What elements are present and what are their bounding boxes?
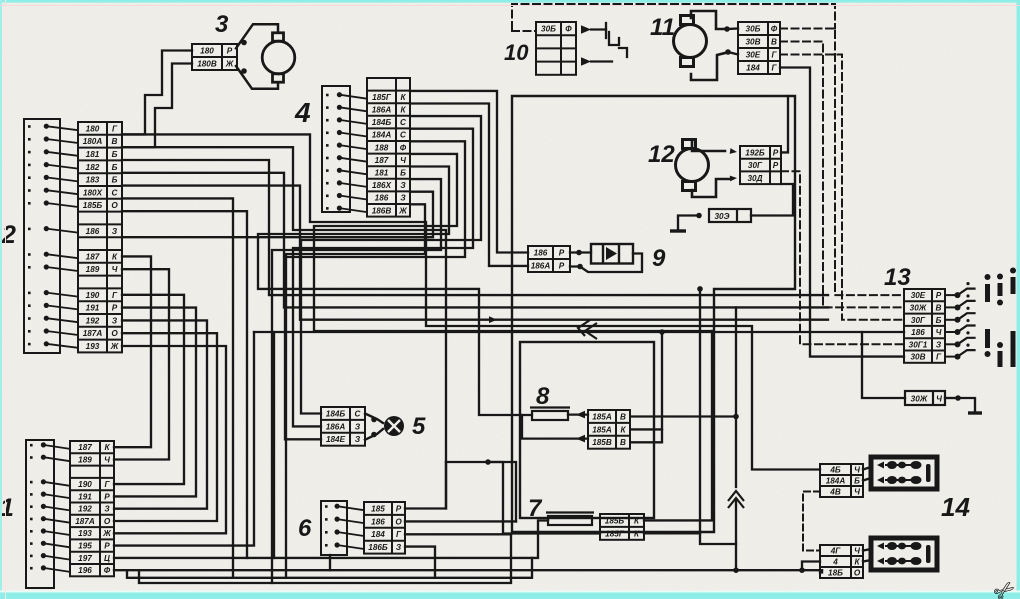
fuse 8 arrow upper — [576, 411, 585, 419]
wire passthrough 7 comp2 to comp1 — [114, 346, 226, 533]
connector body X4 — [322, 86, 350, 212]
switch 10 upper contact arrow — [581, 25, 591, 33]
junction dot comp8 riser — [733, 414, 739, 420]
motor M11 — [674, 16, 707, 67]
fuse F7 — [546, 513, 594, 526]
wire 180 long run to comp14 — [122, 134, 820, 469]
diode unit 9 — [591, 244, 633, 264]
junction dot motor 11 top — [724, 26, 730, 32]
switch 13 contact lead row 6 — [945, 356, 956, 358]
junction dot motor 3 bottom — [241, 68, 247, 74]
switch 10 upper contact bar — [605, 23, 607, 38]
motor 11 housing top lead — [691, 11, 724, 29]
motor 11 top diag — [727, 27, 738, 30]
switch 13 contact dot row 3 — [955, 317, 961, 323]
wire 185Б run down to bottom — [122, 211, 247, 558]
wire 30Ж right — [945, 397, 956, 399]
switch 10 upper contact lead — [591, 28, 606, 30]
lamp symbol 5 — [384, 416, 404, 436]
wire 182 run to switch 13 — [122, 173, 828, 308]
wire 30Г comp12 dashed — [781, 171, 904, 344]
connector pad table X2 — [78, 122, 122, 352]
wire bottom bus 583 — [139, 534, 511, 583]
motor 3 top housing lead — [236, 24, 278, 48]
lamp 5 fork lower — [365, 429, 383, 440]
wire 30В dashed — [780, 42, 904, 308]
junction dot lamp 5 b — [371, 432, 377, 438]
wire comp8 rows 2 3 link — [632, 429, 662, 442]
wire 14 lower link2 — [863, 560, 871, 562]
switch 13 fixed mark row 6 — [966, 344, 969, 347]
junction dot riser 700 — [697, 286, 703, 292]
wire 192Б comp12 up — [781, 96, 788, 152]
wire passthrough 6 comp2 to comp1 — [114, 333, 217, 521]
motor 12 bottom lead — [692, 179, 730, 197]
lamp cluster 14 lower — [871, 538, 937, 570]
wire riser 700 to fuse8 line — [699, 289, 701, 533]
connector table of diode 9 — [528, 246, 570, 272]
wire 187 comp4 run to fuse7 riser — [314, 154, 712, 331]
wire comp8 185А row right — [632, 415, 736, 417]
connector pad table X1 — [70, 441, 114, 576]
connector table X6 — [364, 502, 405, 554]
wire comp6 184 row — [405, 533, 511, 535]
lamp 5 fork upper — [365, 414, 383, 424]
switch 13 fixed mark row 3 — [966, 307, 969, 310]
connector table 14 upper — [820, 464, 863, 497]
wire 197 riser — [273, 332, 275, 558]
wire 180А comp2 to comp3 — [122, 64, 192, 148]
solid harness box around 12 — [512, 96, 795, 532]
switch 13 contact lead row 2 — [945, 306, 956, 308]
switch 13 contact dot row 1 — [955, 292, 961, 298]
wire comp7 185Б row riser — [644, 331, 712, 520]
junction dot riser 662 — [659, 329, 665, 335]
wire comp6 185 row — [405, 462, 446, 509]
wire 30Ж ground lead — [958, 398, 975, 412]
switch 13 contact lead row 4 — [945, 331, 956, 333]
switch table S10 — [536, 22, 576, 75]
wire 181 run to switch 13 — [122, 160, 828, 295]
lamp cluster 14 upper — [871, 457, 937, 489]
junction dot 30Ж right — [955, 395, 961, 401]
solid box around fuses 7 8 — [520, 342, 654, 518]
switch 13 fixed mark row 1 — [966, 282, 969, 285]
wire 196 long bottom bus — [114, 569, 822, 571]
connector table of lamp 5 — [321, 407, 365, 446]
motor 12 top lead — [692, 141, 725, 151]
motor 12 lead arrowhead — [730, 175, 737, 181]
connector table X4 — [367, 78, 410, 217]
switch 13 contact arm row 1 — [958, 289, 975, 296]
scan noise overlay — [0, 0, 1, 1]
switch 13 contact arm row 6 — [958, 350, 975, 357]
fuse 7 left loop — [538, 521, 600, 534]
dashed harness box top — [512, 4, 835, 29]
wire riser 736 lower — [735, 500, 737, 570]
wire long line to 186 row of 13 — [254, 331, 904, 333]
wire 30Б dashed — [780, 29, 904, 296]
junction dot bus 802 — [799, 567, 805, 573]
fuse F8 — [530, 408, 570, 421]
junction dot diode in 2 — [577, 264, 583, 270]
fuse 8 top link — [568, 413, 588, 415]
junction dot motor 11 bottom — [725, 49, 731, 55]
wire passthrough 5 comp2 to comp1 — [114, 320, 207, 508]
wire passthrough 1 comp2 to comp1 — [114, 256, 151, 447]
junction dot resistor left — [696, 213, 702, 219]
switch 10 lever step 2 — [619, 48, 627, 57]
switch 13 fixed mark row 2 — [966, 294, 969, 297]
connector table of motor 3 — [192, 44, 237, 70]
motor 11 bottom diag — [728, 52, 738, 55]
switch 13 position bars — [988, 277, 1014, 367]
wire 184А run to lamp 5 — [293, 129, 473, 427]
wire 197 long to fuse7 loop — [114, 534, 538, 558]
switch 10 lower contact lead — [591, 60, 612, 62]
wire 186А run to diode 9 — [410, 104, 528, 266]
ground symbol right of 30Ж — [968, 411, 982, 414]
wire 14 upper link1 — [863, 467, 871, 470]
junction dot lamp 5 a — [371, 417, 377, 423]
wire 180Х run down to bottom — [122, 198, 233, 577]
motor M3 — [262, 33, 295, 82]
wire 30Е dashed — [780, 55, 904, 320]
switch 10 lower contact arrow — [581, 57, 591, 65]
switch 13 contact dot row 4 — [955, 329, 961, 335]
wire comp6 186Б drop — [405, 547, 435, 578]
motor 12 top arrowhead — [730, 148, 738, 155]
switch 13 fixed mark row 4 — [966, 319, 969, 322]
wire resistor right to 30Д row — [751, 184, 793, 216]
wire 30Ж left riser — [862, 332, 905, 398]
wire riser 736 upper — [735, 307, 737, 487]
ground symbol near resistor — [670, 229, 686, 232]
wire 195 riser — [114, 332, 254, 546]
wire comp6 186 row — [405, 520, 516, 522]
wire riser 662 to long line — [661, 332, 663, 429]
wire bus to lower comp14 row2 — [802, 562, 820, 571]
fuse 8 arrow lower — [576, 435, 585, 443]
wire resistor to ground — [678, 216, 699, 232]
wire comp6 body ground drop — [329, 555, 331, 570]
wire break chevron marks — [578, 320, 597, 339]
wire 185Г run to diode 9 — [410, 91, 528, 253]
junction dot diode in — [576, 250, 582, 256]
wire 188 run to lamp 5 — [285, 141, 465, 439]
switch 13 contact lead row 5 — [945, 343, 956, 345]
connector body X1 — [26, 440, 54, 588]
motor 3 bottom housing lead — [236, 66, 278, 89]
switch 13 contact dot row 5 — [955, 341, 961, 347]
wire 183 run to switch 13 — [122, 186, 828, 320]
dashed lead to switch 10 — [512, 30, 536, 32]
arrowhead on 183 run — [489, 316, 497, 323]
wire 184 comp11 solid — [780, 68, 904, 357]
motor M12 — [676, 140, 709, 191]
connector box 30Ж — [905, 391, 945, 405]
wire 503 drop to fuse7 — [488, 462, 538, 534]
wire 14 upper link2 — [863, 478, 871, 481]
ignition switch table 13 — [904, 289, 945, 363]
wire passthrough 4 comp2 to comp1 — [114, 308, 196, 497]
wire 181 comp4 run to fuse8 — [258, 167, 522, 416]
wire 462 link — [446, 462, 516, 521]
connector table of motor 11 — [738, 22, 780, 74]
wire dashed 4В to 4Г — [803, 492, 820, 551]
connector table 14 lower — [820, 545, 863, 578]
junction dot 462a — [485, 459, 491, 465]
wire 186Х run down — [272, 179, 441, 583]
connector table of motor 12 — [740, 146, 781, 184]
wire 18Б stub comp14 — [820, 570, 822, 572]
wire bottom line 578 — [127, 558, 532, 578]
switch 13 contact dot row 2 — [955, 304, 961, 310]
switch 13 contact arm row 5 — [958, 338, 975, 345]
fuse 8 left loop — [522, 415, 588, 439]
switch 10 lever step — [609, 32, 619, 45]
fuse table 8 — [588, 410, 630, 449]
switch 13 contact dot row 6 — [955, 354, 961, 360]
wire diode bottom loop — [570, 254, 642, 273]
wire passthrough 2 comp2 to comp1 — [114, 269, 169, 459]
switch 13 contact arm row 2 — [958, 301, 975, 308]
connector body X6 — [321, 501, 347, 555]
wire diode top — [570, 251, 591, 253]
upward arrow symbol on riser near 14 — [728, 491, 744, 508]
wire 184Б run to lamp 5 — [301, 116, 481, 413]
wire 14 lower link1 — [863, 549, 871, 551]
fuse table 7 — [600, 514, 644, 540]
switch 13 fixed mark row 5 — [966, 331, 969, 334]
wire 180 comp2 to comp3 — [122, 51, 192, 135]
wire 186В run down — [286, 204, 425, 578]
connector body X2 — [24, 119, 60, 353]
motor 11 housing bottom lead — [691, 53, 725, 80]
junction dot riser bus — [733, 567, 739, 573]
switch 13 contact lead row 3 — [945, 319, 956, 321]
wire comp7 185Г row — [644, 533, 736, 544]
wire passthrough 3 comp2 to comp1 — [114, 295, 184, 484]
junction dot motor 3 top — [241, 40, 247, 46]
resistor R 30Э — [709, 209, 751, 222]
switch 13 contact arm row 4 — [958, 326, 975, 333]
switch 13 contact lead row 1 — [945, 294, 956, 296]
wire 180А long run to comp6 — [122, 147, 446, 508]
wire 186 link comp2 to comp4 — [122, 192, 433, 238]
switch 13 contact arm row 3 — [958, 313, 975, 320]
